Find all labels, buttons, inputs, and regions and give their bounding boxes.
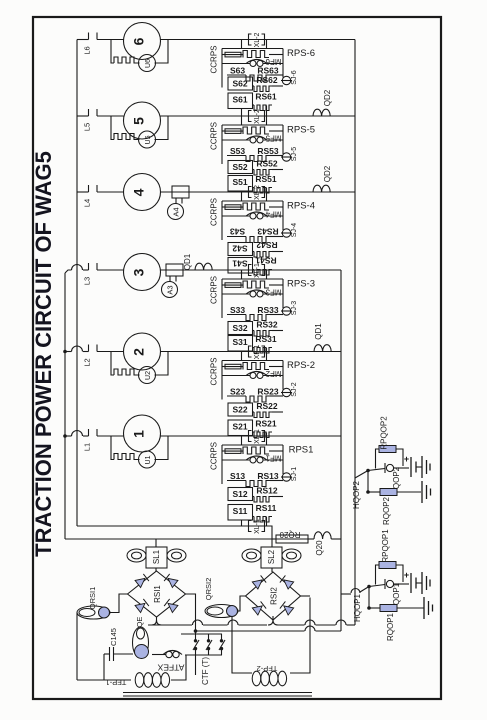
svg-text:S52: S52	[232, 162, 247, 172]
svg-text:S13: S13	[230, 471, 245, 481]
svg-text:U2: U2	[145, 371, 152, 380]
svg-text:RS31: RS31	[255, 334, 277, 344]
bus right outer	[354, 40, 356, 626]
svg-text:3: 3	[131, 268, 147, 276]
svg-text:S63: S63	[230, 66, 245, 76]
svg-text:RS51: RS51	[255, 174, 277, 184]
switch QE	[133, 627, 149, 658]
svg-text:S51: S51	[232, 177, 247, 187]
svg-text:6: 6	[131, 37, 147, 45]
contact block 1	[222, 459, 250, 461]
resistor U2	[139, 367, 156, 384]
switchgroup CTF (T)	[181, 633, 222, 635]
border frame	[33, 17, 441, 699]
svg-text:Q20: Q20	[315, 540, 324, 556]
resistor U5	[139, 131, 156, 148]
svg-text:S41: S41	[232, 259, 247, 269]
wire U5 to rail	[155, 116, 169, 140]
wire RSI2 right vertex	[301, 595, 311, 597]
shunt resistor row 3	[166, 264, 183, 276]
svg-text:SJ-2: SJ-2	[291, 382, 298, 397]
svg-text:RQOP2: RQOP2	[382, 496, 391, 525]
svg-text:QE: QE	[135, 617, 144, 628]
svg-text:RPQOP2: RPQOP2	[380, 416, 389, 450]
fuse MF4	[222, 206, 225, 208]
svg-text:5: 5	[131, 117, 147, 125]
contact L2	[88, 345, 90, 352]
svg-text:A3: A3	[166, 285, 175, 294]
resistor shunt branch motor 5	[111, 116, 114, 140]
contact block 5	[222, 139, 250, 141]
svg-text:RSI2: RSI2	[270, 587, 279, 605]
motor 2	[124, 333, 161, 370]
svg-text:RQ20: RQ20	[279, 530, 300, 539]
svg-text:RS11: RS11	[256, 503, 277, 513]
wire rail 0 (bottom return)	[77, 526, 272, 539]
connector XL rail 2	[249, 346, 252, 357]
wire rail 2	[65, 351, 72, 353]
wire DC negative collector	[148, 617, 157, 625]
svg-text:+: +	[404, 454, 409, 464]
wire U6 to rail	[155, 40, 169, 64]
svg-text:S12: S12	[232, 489, 247, 499]
resistor RQOP1	[367, 606, 371, 610]
battery and ground QOP2	[394, 467, 409, 469]
relay SJ-3	[281, 310, 292, 312]
wire CTF link	[196, 630, 305, 632]
svg-text:RPS-5: RPS-5	[287, 125, 315, 136]
svg-text:S23: S23	[230, 387, 245, 397]
resistor MF2	[243, 363, 269, 370]
svg-text:QD2: QD2	[323, 165, 332, 182]
motor 6	[124, 23, 161, 60]
svg-text:RS42: RS42	[256, 240, 278, 250]
svg-text:+: +	[404, 570, 409, 580]
svg-text:MF4: MF4	[265, 210, 281, 219]
svg-text:CCRPS: CCRPS	[210, 122, 219, 150]
svg-text:ATFEX: ATFEX	[157, 663, 184, 673]
wire U2 to rail	[155, 352, 169, 376]
svg-text:U5: U5	[145, 135, 152, 144]
resistor MF1	[243, 447, 269, 454]
svg-text:QD1: QD1	[314, 323, 323, 340]
svg-text:S53: S53	[230, 146, 245, 156]
contact L1	[88, 429, 90, 436]
wire transformer TFP-2 loop	[290, 598, 310, 674]
smoothing reactor SL1	[155, 539, 157, 547]
ammeter A3	[169, 276, 171, 282]
motor 4	[124, 174, 161, 211]
connector XL rail 6	[249, 34, 252, 45]
contact L3	[88, 263, 90, 270]
contact L6	[88, 33, 90, 40]
inductor QD2 rail 4	[313, 185, 330, 192]
shunt resistor row 4	[172, 186, 189, 198]
svg-text:RPQOP1: RPQOP1	[381, 529, 390, 563]
wire rail 6	[77, 39, 89, 41]
rectifier bridge RSI1	[128, 571, 186, 617]
svg-text:RS22: RS22	[256, 401, 278, 411]
resistor shunt branch motor 6	[111, 40, 114, 64]
svg-text:S31: S31	[232, 337, 247, 347]
node on inner bus at rail 1	[63, 434, 67, 438]
wire U1 to rail	[155, 436, 169, 460]
resistor MF5	[243, 127, 269, 134]
svg-text:S11: S11	[233, 506, 248, 516]
node on inner bus at rail 2	[63, 350, 67, 354]
wire block RPS-5 bottom stubs	[241, 191, 243, 192]
wire rail 4	[77, 191, 89, 193]
svg-text:S32: S32	[232, 323, 247, 333]
svg-text:L2: L2	[83, 358, 92, 366]
svg-text:U1: U1	[145, 455, 152, 464]
contact L4	[88, 185, 90, 192]
resistor MF3	[243, 281, 269, 288]
contact block 3	[222, 293, 250, 295]
fuse MF1	[222, 450, 225, 452]
fuse MF6	[222, 54, 225, 56]
svg-text:RS12: RS12	[256, 486, 278, 496]
svg-text:S21: S21	[232, 422, 247, 432]
resistor MF6	[243, 51, 269, 58]
inductor Q20	[308, 538, 314, 540]
svg-text:L3: L3	[83, 277, 92, 285]
disconnector QRSI2	[239, 596, 246, 611]
contact block 6	[222, 63, 250, 65]
relay SJ-2	[281, 392, 292, 394]
svg-text:RS63: RS63	[257, 66, 279, 76]
svg-text:SJ-6: SJ-6	[291, 70, 298, 85]
svg-text:RS43: RS43	[257, 227, 279, 237]
svg-text:HQOP1: HQOP1	[353, 593, 362, 622]
resistor RPQOP2	[376, 449, 380, 469]
svg-text:L4: L4	[83, 199, 92, 207]
svg-text:MF2: MF2	[266, 369, 282, 378]
svg-text:TFP-1: TFP-1	[106, 678, 127, 687]
svg-text:SJ-3: SJ-3	[291, 301, 298, 316]
connector XL rail 1	[249, 431, 252, 442]
svg-text:1: 1	[131, 430, 147, 438]
svg-text:XL-1: XL-1	[254, 345, 261, 360]
svg-text:TFP-2: TFP-2	[257, 664, 278, 673]
svg-text:QOP2: QOP2	[392, 466, 401, 489]
resistor MF4	[243, 203, 269, 210]
resistor RQ20	[272, 538, 276, 540]
svg-text:U6: U6	[145, 59, 152, 68]
capacitor C145	[104, 653, 110, 655]
fuse MF3	[222, 284, 225, 286]
connector XL rail 3	[249, 265, 252, 276]
svg-text:2: 2	[131, 348, 147, 356]
bus right inner	[340, 270, 342, 631]
svg-text:RPS1: RPS1	[289, 445, 314, 456]
svg-text:SJ-4: SJ-4	[291, 223, 298, 238]
ammeter A4	[175, 198, 177, 204]
wire block RPS-3 top stubs	[241, 270, 243, 279]
svg-text:RSI1: RSI1	[153, 585, 162, 603]
resistor RQOP2	[366, 490, 370, 494]
connector XL rail 0	[249, 521, 252, 532]
svg-text:C145: C145	[109, 628, 118, 646]
connector XL rail 5	[249, 111, 252, 122]
resistor shunt branch motor 1	[111, 436, 114, 460]
svg-text:QRSI2: QRSI2	[204, 578, 213, 601]
svg-text:XL-1: XL-1	[254, 519, 261, 534]
resistor RPQOP1	[376, 565, 380, 585]
svg-text:QOP1: QOP1	[392, 582, 401, 605]
switch HQOP1	[341, 593, 351, 595]
motor 3	[124, 254, 161, 291]
svg-text:RPS-4: RPS-4	[287, 201, 315, 212]
svg-text:S22: S22	[232, 405, 247, 415]
wire rail 3 (from inner bus, jumps bus)	[65, 270, 72, 273]
motor 5	[124, 102, 161, 139]
core lines	[123, 692, 312, 694]
relay SJ-4	[281, 232, 292, 234]
svg-text:XL-2: XL-2	[254, 33, 261, 48]
relay SJ-1	[281, 476, 292, 478]
svg-text:A4: A4	[172, 207, 181, 216]
svg-text:RS33: RS33	[257, 305, 279, 315]
wire block RPS-2 bottom stubs	[241, 435, 243, 438]
inductor QD2 rail 5	[313, 109, 330, 116]
svg-text:XL-1: XL-1	[254, 263, 261, 278]
svg-text:RS62: RS62	[256, 75, 278, 85]
wire TFP-1 to CTF	[171, 655, 186, 681]
wire block RPS1 top stubs	[241, 436, 243, 445]
svg-text:XL-2: XL-2	[254, 185, 261, 200]
battery and ground QOP1	[394, 583, 409, 585]
disconnector QRSI1	[110, 594, 128, 613]
svg-text:XL-2: XL-2	[254, 109, 261, 124]
svg-text:MF1: MF1	[266, 454, 282, 463]
svg-text:4: 4	[131, 188, 147, 196]
svg-text:MF5: MF5	[265, 134, 281, 143]
svg-text:CTF (T): CTF (T)	[201, 657, 210, 685]
svg-text:S33: S33	[230, 305, 245, 315]
svg-text:SL2: SL2	[267, 549, 276, 564]
svg-text:MF3: MF3	[266, 288, 282, 297]
contact block 4	[222, 215, 250, 217]
svg-text:CCRPS: CCRPS	[210, 198, 219, 226]
svg-text:SL1: SL1	[152, 549, 161, 564]
svg-text:L6: L6	[83, 46, 92, 54]
relay SJ-6	[281, 80, 292, 82]
rectifier bridge RSI2	[246, 572, 301, 620]
svg-text:RS13: RS13	[257, 471, 279, 481]
fuse MF2	[222, 366, 225, 368]
contact ATFEX	[166, 651, 172, 657]
wire RSI1 right vertex down	[186, 594, 196, 634]
wire transformer TFP-1 loop	[76, 613, 78, 681]
contact block 2	[222, 375, 250, 377]
svg-text:S43: S43	[230, 227, 245, 237]
svg-text:XL-1: XL-1	[254, 429, 261, 444]
inductor QD1 rail 2	[314, 345, 331, 352]
switch HQOP2	[355, 471, 368, 479]
svg-text:QD1: QD1	[183, 253, 192, 270]
wire block RPS-4 bottom stubs	[241, 270, 243, 273]
contactor QOP2	[384, 463, 386, 473]
svg-text:CCRPS: CCRPS	[210, 442, 219, 470]
wire block RPS-6 bottom stubs	[241, 109, 243, 117]
wire block RPS-4 top stubs	[241, 192, 243, 201]
svg-text:RQOP1: RQOP1	[386, 612, 395, 641]
svg-text:RS21: RS21	[255, 419, 277, 429]
svg-text:TRACTION POWER CIRCUIT OF WAG5: TRACTION POWER CIRCUIT OF WAG5	[31, 151, 56, 557]
svg-text:SJ-5: SJ-5	[291, 147, 298, 162]
winding TFP-2	[252, 671, 261, 686]
contact L5	[88, 109, 90, 116]
svg-text:RS32: RS32	[256, 320, 278, 330]
wire rail 5	[77, 115, 89, 117]
wire block RPS-3 bottom stubs	[241, 350, 243, 353]
svg-text:CCRPS: CCRPS	[210, 276, 219, 304]
resistor U6	[139, 55, 156, 72]
wire block RPS-5 top stubs	[241, 116, 243, 125]
resistor shunt branch motor 2	[111, 352, 114, 376]
svg-text:RPS-6: RPS-6	[287, 48, 315, 59]
bus line left (feeds motors 4-6)	[76, 40, 78, 527]
svg-text:RS52: RS52	[256, 159, 278, 169]
svg-text:SJ-1: SJ-1	[291, 467, 298, 482]
svg-text:L5: L5	[83, 123, 92, 131]
svg-text:RPS-2: RPS-2	[287, 360, 315, 371]
svg-text:CCRPS: CCRPS	[210, 357, 219, 385]
connector XL rail 4	[249, 187, 252, 198]
svg-text:S62: S62	[232, 79, 247, 89]
wire block RPS1 bottom stubs	[241, 520, 243, 526]
svg-text:L1: L1	[83, 443, 92, 451]
inductor QD1 rail 3	[195, 263, 212, 270]
motor 1	[124, 415, 161, 452]
bus line left inner (feeds motors 1-3)	[64, 273, 66, 539]
svg-text:HQOP2: HQOP2	[352, 480, 361, 509]
svg-text:QRSI1: QRSI1	[88, 587, 97, 610]
wire DC link to smoothing reactors	[65, 538, 314, 540]
smoothing reactor SL2	[271, 539, 273, 547]
svg-text:CCRPS: CCRPS	[210, 45, 219, 73]
resistor U1	[139, 451, 156, 468]
svg-text:S61: S61	[232, 95, 247, 105]
svg-text:RS23: RS23	[257, 387, 279, 397]
wire block RPS-2 top stubs	[241, 352, 243, 361]
wire rail 0 left	[241, 525, 243, 527]
svg-text:QD2: QD2	[323, 89, 332, 106]
svg-text:RS61: RS61	[255, 92, 277, 102]
svg-text:RPS-3: RPS-3	[287, 279, 315, 290]
wire rail 1	[65, 435, 72, 437]
winding TFP-1	[135, 673, 144, 688]
fuse MF5	[222, 130, 225, 132]
svg-text:S42: S42	[232, 244, 247, 254]
contactor QOP1	[384, 579, 386, 589]
relay SJ-5	[281, 156, 292, 158]
svg-text:RS53: RS53	[257, 146, 279, 156]
wire block RPS-6 top stubs	[241, 40, 243, 49]
